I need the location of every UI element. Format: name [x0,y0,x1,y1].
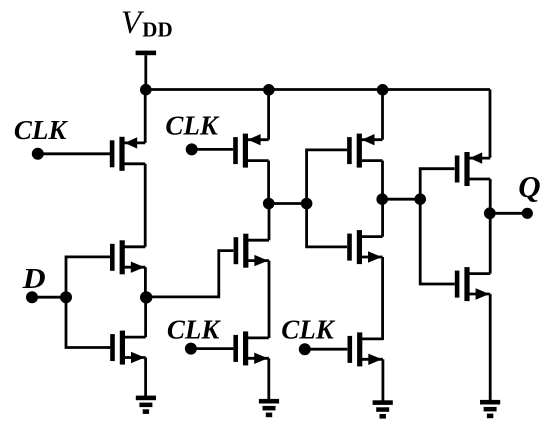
junction node X right [301,198,313,210]
wire node Q to terminal [490,212,528,215]
wire rail right corner down to M4 source [489,90,492,158]
wire M4 source to VDD rail [267,90,270,140]
ground (stage 3) [373,400,393,418]
svg-text:CLK: CLK [167,315,222,345]
svg-text:DD: DD [142,18,172,42]
terminal CLK2 [186,143,198,155]
nmos M8 (node X gate) [347,230,382,264]
wire node X down to M8 gate [307,204,348,247]
ground (stage 1) [136,396,156,414]
wire node Y [382,198,420,201]
terminal D [26,291,38,303]
wire CLK3 to M5 gate [191,347,234,350]
junction node S1 [140,291,152,303]
nmos M11 (node Y gate) [455,267,490,301]
wire M3 drain to node S1 [144,297,147,337]
wire node Y up to M10 gate [420,169,454,200]
nmos M6 (S1 gate) [234,234,269,268]
svg-text:CLK: CLK [281,315,336,345]
nmos M3 (D) [110,331,145,365]
pmos M4 (CLK) [233,134,268,168]
terminal CLK1 [32,148,44,160]
wire M7 source to VDD rail [381,90,384,140]
wire D junction up to M2 gate [66,257,110,297]
svg-text:Q: Q [518,169,540,204]
wire M8 source to M9 drain [381,257,384,340]
wire M11 drain to node Q [489,213,492,273]
wire M5 source to ground [267,358,270,400]
wire node X [269,202,307,205]
wire M7 drain to node Y [381,161,384,200]
junction node X left [263,198,275,210]
terminal CLK3 [185,343,197,355]
wire CLK1 to M1 gate [38,152,110,155]
pmos M1 (CLK) [110,137,145,171]
pmos M7 (node X gate) [347,134,382,168]
pmos M10 (node Y gate) [455,152,490,186]
wire M6 source to M5 drain [268,261,271,338]
wire M1 source to VDD rail [144,90,147,143]
wire node S1 to M6 gate [146,251,233,297]
terminal Q [522,208,533,219]
wire VDD stub [144,55,147,89]
wire M10 drain to node Q [489,179,492,213]
junction node Y right [414,193,426,205]
wire M6 drain to node X [268,204,271,241]
wire M3 source to ground [144,358,147,397]
wire node X up to M7 gate [307,150,348,204]
wire CLK4 to M9 gate [305,348,348,351]
junction VDD rail / M5 source [377,84,389,96]
wire M1 drain to M2 drain [144,164,147,247]
junction VDD rail / M1 source [140,84,152,96]
wire node Y down to M11 gate [420,199,455,284]
svg-text:V: V [121,5,145,41]
nmos M9 (CLK) [348,332,383,366]
svg-text:CLK: CLK [165,111,220,141]
wire VDD rail [146,88,490,91]
junction node Q [484,207,496,219]
wire D to gate junction [32,296,66,299]
svg-text:D: D [22,264,46,295]
VDD supply bar [136,51,157,56]
ground (output stage) [480,400,500,418]
wire D junction down to M3 gate [66,297,110,347]
wire M8 drain to node Y [381,199,384,236]
junction D gates [60,291,72,303]
wire M2 source to node S1 [144,267,147,297]
nmos M5 (CLK) [233,331,268,365]
wire CLK2 to M4 gate [192,148,234,151]
junction node Y left [376,193,388,205]
wire M9 source to ground [381,359,384,401]
junction VDD rail / M2 source [263,84,275,96]
terminal CLK4 [299,343,311,355]
nmos M2 (D) [110,240,145,274]
wire M4 drain to node X [267,161,270,204]
svg-text:CLK: CLK [14,115,69,145]
ground (stage 2) [259,399,279,417]
wire M11 source to ground [489,294,492,401]
